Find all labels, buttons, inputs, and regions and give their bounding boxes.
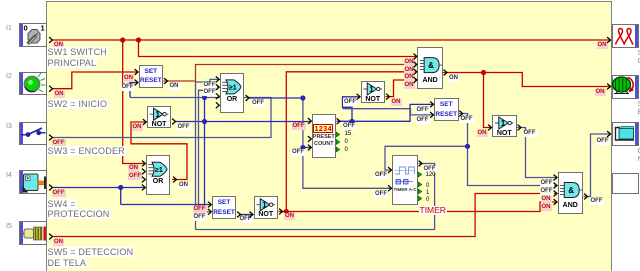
svg-text:1: 1 bbox=[369, 85, 374, 94]
svg-text:&: & bbox=[428, 61, 434, 70]
svg-text:1: 1 bbox=[156, 110, 161, 119]
svg-text:1: 1 bbox=[501, 119, 506, 128]
svg-text:≥1: ≥1 bbox=[155, 167, 163, 174]
svg-text:≥1: ≥1 bbox=[229, 85, 237, 92]
svg-text:0: 0 bbox=[24, 24, 28, 33]
svg-text:&: & bbox=[568, 186, 574, 195]
svg-text:1: 1 bbox=[262, 201, 267, 210]
svg-text:1234: 1234 bbox=[315, 126, 332, 133]
svg-text:1: 1 bbox=[41, 24, 45, 33]
